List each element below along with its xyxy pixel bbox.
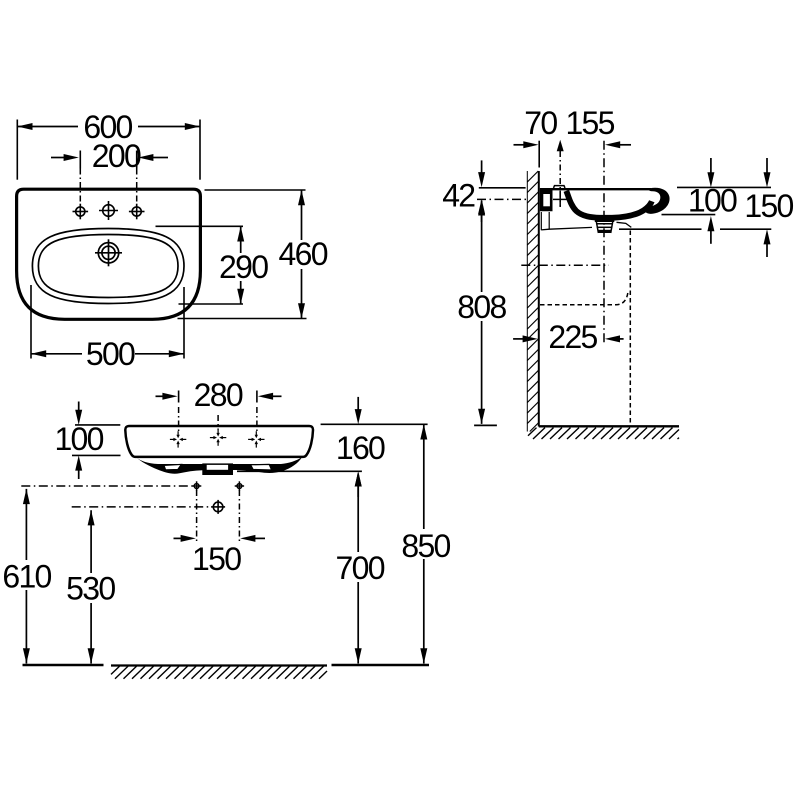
dim 70/155 line arrows <box>514 144 528 146</box>
bolt axis (side, horiz dash-dot) <box>477 198 530 200</box>
faucet hole center <box>99 201 118 220</box>
dim 100 (front) arrows <box>78 402 80 413</box>
dim 225 arrows <box>513 338 526 340</box>
dim 42 arrows <box>481 160 483 174</box>
dim 200 arrows <box>51 157 66 159</box>
dim 100 (side) text <box>688 191 736 213</box>
svg-text:100: 100 <box>688 182 737 218</box>
dim 600 line <box>17 126 200 128</box>
svg-text:150: 150 <box>744 188 793 224</box>
svg-text:200: 200 <box>92 138 141 174</box>
basin outline (plan) <box>17 189 201 319</box>
bolt centerline left vertical <box>196 490 198 542</box>
dim 460 ext top <box>205 189 306 191</box>
dim 100 (front) ext lines <box>75 424 120 426</box>
floor hatch (side) <box>528 428 679 439</box>
svg-text:42: 42 <box>442 178 475 214</box>
dim 160 ext bottom <box>237 470 362 472</box>
svg-text:155: 155 <box>565 105 614 141</box>
bolt cross right (front lower) <box>235 481 244 490</box>
floor line (side) <box>539 425 679 427</box>
hidden waste pipe to wall (dashed) <box>540 293 628 305</box>
centerline right hole <box>136 169 138 207</box>
dim 150 arrows <box>174 537 184 539</box>
svg-text:280: 280 <box>194 377 243 413</box>
rim bullnose (side) <box>645 188 670 214</box>
overflow slot right (front) <box>251 464 272 470</box>
svg-text:530: 530 <box>66 570 115 606</box>
overflow slot left (front) <box>164 464 181 469</box>
dim 42 ext line <box>479 187 526 189</box>
dim 100 (side) ext top <box>677 186 771 188</box>
bowl rim inner (plan) <box>38 235 178 298</box>
svg-text:500: 500 <box>86 336 135 372</box>
drain axis (side) <box>603 141 605 346</box>
dim 500 ext lines <box>30 285 32 359</box>
dim 280 arrows <box>156 395 166 397</box>
mounting bracket (side) <box>540 188 553 211</box>
svg-text:850: 850 <box>401 528 450 564</box>
wall hatch <box>527 171 539 432</box>
rim top line (side) <box>540 188 651 190</box>
centerline left hole <box>79 169 81 207</box>
dim 160 ext top <box>321 423 428 425</box>
dim 700 line <box>357 474 359 664</box>
bolt cross left (front lower) <box>192 481 201 490</box>
pedestal channel (side) <box>540 212 542 230</box>
dim 290 ext bottom <box>179 303 244 305</box>
bowl back wall + bottom (side) <box>566 191 652 218</box>
svg-text:100: 100 <box>54 421 103 457</box>
bolt centerline right vertical <box>238 490 240 542</box>
faucet hole left <box>73 204 89 220</box>
hidden waste pipe vertical (dashed) <box>629 231 631 425</box>
mount cross right (front) <box>248 431 264 447</box>
front underside band <box>136 457 302 474</box>
dim 290 line <box>240 226 242 304</box>
dim 160 arrows <box>357 397 359 412</box>
mount cross center (front) <box>210 429 226 445</box>
svg-text:290: 290 <box>219 249 268 285</box>
mount cross left (front) <box>170 431 186 447</box>
dim 600 extension lines <box>16 120 18 180</box>
drain (plan) <box>95 239 122 266</box>
dim 850 line <box>423 424 425 663</box>
axis line bolts (horiz dash-dot) <box>21 485 192 487</box>
dim 280 ticks + centerlines <box>178 391 180 403</box>
svg-text:225: 225 <box>548 319 597 355</box>
dim 460 ext bottom <box>178 318 307 320</box>
dim 460 line <box>301 190 303 319</box>
waste outlet cross (front lower) <box>211 500 225 514</box>
faucet hole right <box>129 204 145 220</box>
dim 200 ticks <box>79 151 81 169</box>
svg-text:460: 460 <box>279 236 328 272</box>
rim bottom ext (side) <box>662 214 716 216</box>
faucet boss (side) <box>554 186 566 188</box>
svg-text:70: 70 <box>524 105 557 141</box>
dim 610 line <box>25 489 27 664</box>
drain flange (side) <box>595 217 615 222</box>
dim 530 line <box>90 510 92 663</box>
faucet axis (side) <box>559 151 561 207</box>
dim 100 (side) arrows <box>710 158 712 174</box>
wall face line <box>538 171 540 427</box>
dim 808 line <box>481 201 483 293</box>
svg-text:700: 700 <box>336 550 385 586</box>
bowl rim outer (plan) <box>32 229 184 304</box>
svg-text:150: 150 <box>192 541 241 577</box>
wall back line <box>526 171 528 432</box>
ground line left (front) <box>23 664 104 666</box>
svg-text:808: 808 <box>457 289 506 325</box>
dim 500 line <box>31 353 184 355</box>
floor tick (808) <box>474 424 497 426</box>
dim 150 (side) arrows <box>766 158 768 174</box>
svg-text:610: 610 <box>2 558 51 594</box>
axis line waste (horiz dash-dot) <box>72 506 209 508</box>
dim 290 ext top <box>156 225 244 227</box>
front body outline <box>125 426 313 457</box>
drain box (front) <box>202 463 233 475</box>
svg-text:160: 160 <box>336 430 385 466</box>
ground line right (front) <box>332 664 430 666</box>
mid axis (side, horiz dash-dot) <box>521 264 609 266</box>
underside contour (side) <box>541 227 592 230</box>
bolt tick (side) <box>559 191 561 207</box>
dim 150 (side) ext bottom <box>619 228 702 230</box>
ground hatched strip (front) <box>111 666 327 679</box>
